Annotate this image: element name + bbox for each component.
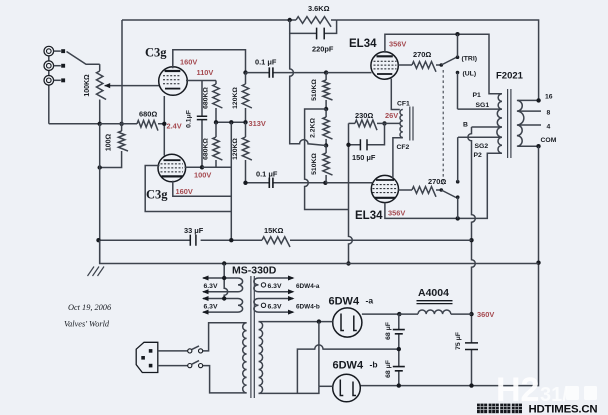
svg-text:(UL): (UL) [463,71,477,78]
pot wiper arrow [105,85,160,87]
capacitor 68uF a [393,330,405,334]
tube V3 EL34 upper [371,52,398,79]
wire cathode line [100,123,165,125]
svg-text:100Ω: 100Ω [106,133,113,151]
wire SG1 tap [458,108,501,110]
capacitor screen bypass 0.1uF [201,81,203,168]
svg-text:6.3V: 6.3V [204,304,218,311]
ground symbol [88,267,105,277]
svg-text:16: 16 [545,94,553,101]
PT 6.3V right w3 [259,278,294,292]
node bias top [324,107,328,111]
choke CF core [410,107,413,141]
svg-text:CF2: CF2 [397,144,410,151]
node coupling bottom [243,181,247,185]
wire 150uF branch [349,123,385,263]
svg-text:270Ω: 270Ω [413,50,431,59]
wire B+ vertical [468,127,475,386]
wire plate link vertical [318,322,320,387]
svg-text:2.4V: 2.4V [167,122,182,131]
mains plug [136,342,158,372]
wire Va cathode [362,313,399,315]
svg-text:100KΩ: 100KΩ [84,74,91,97]
svg-text:680KΩ: 680KΩ [203,87,210,109]
node TRI contact [456,55,460,59]
svg-text:26V: 26V [385,111,398,120]
selector contact 3 [61,78,65,82]
selector contact 2 [61,64,65,68]
resistor 120K lower [245,122,247,137]
wire UL bottom to SG2 [457,137,459,182]
node 68uF bottom [397,383,401,387]
OPT secondary winding [517,100,524,146]
capacitor 150uF [360,139,367,150]
node EL34 grid bottom [323,181,327,185]
svg-text:220pF: 220pF [312,45,334,54]
watermark logo [496,371,597,409]
resistor 2.2K [323,117,333,139]
choke CF winding [400,110,403,138]
node hw2 [222,296,226,300]
resistor 230ohm [349,122,356,124]
node rail-680K [214,120,218,124]
wire B tap [472,126,501,128]
tube V4 EL34 lower [371,175,398,202]
node cathode 2.4V [162,122,166,126]
node tap16 [536,98,540,102]
switch link dashed [442,70,444,185]
resistor 510K top [325,73,327,80]
wire V1 plate [173,50,246,73]
svg-text:SG1: SG1 [476,102,490,109]
node fb/cathode-R [119,122,123,126]
svg-text:0.1 μF: 0.1 μF [255,58,277,67]
capacitor 33uF [190,235,196,246]
svg-text:-b: -b [370,360,378,370]
wire jack link [49,56,100,124]
wire V3 plate [385,34,502,93]
wire V1 cathode [163,96,165,156]
wire grid bottom EL34 [325,182,372,184]
resistor 3.6K [296,17,331,27]
node switch pivot bottom [440,188,444,192]
selector contact 1 [61,49,65,53]
node heater gnd [222,261,226,265]
svg-text:4: 4 [547,124,551,131]
svg-text:33 μF: 33 μF [184,226,204,235]
node EL34 grid top [324,70,328,74]
wire rail to bus [230,122,232,240]
tube V1 C3g upper [159,67,188,96]
node screen lower [200,165,204,169]
svg-text:313V: 313V [249,119,266,128]
wire doubler mid [297,345,398,393]
capacitor 75uF [465,343,478,350]
svg-text:270Ω: 270Ω [428,177,446,186]
PT core [251,276,254,398]
wire CF center tap [385,122,401,124]
node UL contact [456,71,460,75]
svg-text:356V: 356V [388,209,405,218]
selector switch lever [67,52,100,65]
resistor 270ohm bottom [398,189,412,191]
svg-text:680KΩ: 680KΩ [203,138,210,160]
wire 68uF chain [398,314,400,386]
svg-text:150 μF: 150 μF [352,153,376,162]
svg-text:6.3V: 6.3V [204,283,218,290]
svg-text:15KΩ: 15KΩ [264,226,284,235]
resistor 100ohm [121,124,123,131]
svg-text:160V: 160V [176,187,193,196]
wire bus decouple [99,239,472,241]
resistor 680K lower [215,122,217,137]
wire TRI to plate [457,34,459,57]
switch lever bottom [441,190,456,198]
wire bias return [305,109,349,210]
svg-text:Oct 19, 2006: Oct 19, 2006 [68,303,112,312]
OPT core [508,89,511,158]
resistor 680K upper [215,81,217,85]
resistor 15K [262,237,290,247]
resistor 270ohm top [398,64,412,66]
svg-text:(TRI): (TRI) [462,56,477,63]
wire COM down [360,146,539,385]
svg-text:75 μF: 75 μF [455,332,462,350]
capacitor 0.1uF top [269,67,273,77]
capacitor 68uF b [393,367,405,371]
PT primary winding [243,323,247,393]
wire Vb plate lead [319,385,333,387]
wire SG2 tap [458,136,500,138]
svg-text:120KΩ: 120KΩ [232,138,239,160]
svg-text:MS-330D: MS-330D [232,265,277,277]
svg-text:120KΩ: 120KΩ [232,87,239,109]
svg-text:A4004: A4004 [418,287,449,299]
node tapCOM [536,144,540,148]
wire V4 plate [385,153,502,218]
svg-text:-a: -a [366,296,374,306]
switch S1b [188,364,192,368]
svg-text:COM: COM [541,137,557,144]
input jack J3 [44,76,54,86]
wire feedback bus left [122,20,296,124]
svg-text:C3g: C3g [145,46,167,60]
tube V5 6DW4-a [333,308,362,337]
PT HV winding [259,322,263,394]
wire V2 screen [185,166,232,168]
svg-text:100V: 100V [194,171,211,180]
node rail-mid [229,120,233,124]
svg-text:6DW4: 6DW4 [329,296,360,308]
capacitor 0.1uF bottom [269,178,273,188]
node cathode return gnd [346,261,350,265]
node doubler mid [397,347,401,351]
wire V2 grid [145,166,231,212]
svg-text:510KΩ: 510KΩ [311,79,318,101]
node Va plate link [317,319,321,323]
svg-text:0.1 μF: 0.1 μF [256,170,278,179]
wire feedback injection [290,33,326,145]
node B+ bus [469,238,473,242]
wire V2 plate [173,181,232,197]
svg-text:680Ω: 680Ω [139,110,157,119]
wire V3 cathode [391,79,400,110]
svg-text:6DW4-b: 6DW4-b [296,304,320,311]
tube V2 C3g lower [158,154,186,182]
svg-text:EL34: EL34 [355,210,383,222]
node 360V [469,312,473,316]
node TRI contact bottom [456,195,460,199]
svg-text:6DW4: 6DW4 [333,360,364,372]
node rail-120K [243,120,247,124]
svg-text:356V: 356V [389,40,406,49]
svg-text:6.3V: 6.3V [268,304,282,311]
wire fb bus right [337,20,539,100]
svg-text:Valves' World: Valves' World [64,320,110,329]
wire ground bus [100,240,539,263]
tube V6 6DW4-b [333,374,361,402]
node plate coupling [243,70,247,74]
switch S1a [188,349,192,353]
wire rect to choke [399,313,418,315]
svg-text:F2021: F2021 [496,71,524,82]
svg-text:B: B [463,122,468,129]
wire mains bottom [203,366,247,393]
node fb RC left [288,18,292,22]
PT 6.3V left w2 [203,299,238,313]
resistor 510K bottom [325,146,327,154]
svg-text:68 μF: 68 μF [385,322,392,340]
node 100ohm return [98,165,102,169]
svg-text:510KΩ: 510KΩ [311,153,318,175]
svg-text:C3g: C3g [146,187,168,201]
watermark text [477,404,487,414]
wire 220pF branch [290,20,337,33]
wire mains top [203,323,247,351]
resistor 680ohm [137,120,158,130]
wire left ground drop [99,124,101,264]
svg-text:360V: 360V [477,310,494,319]
svg-text:3.6KΩ: 3.6KΩ [308,4,330,13]
node 150uF left [346,143,350,147]
svg-text:EL34: EL34 [349,38,377,50]
node bus mid [229,238,233,242]
svg-text:SG2: SG2 [475,143,489,150]
wire coupling bottom [246,182,326,184]
node bias bottom [324,143,328,147]
svg-text:2.2KΩ: 2.2KΩ [310,118,317,138]
PT 6.3V left w1 [203,278,238,292]
capacitor 220pF [317,28,325,40]
svg-text:0.1μF: 0.1μF [186,110,193,128]
wire grid top EL34 [326,72,371,74]
OPT primary winding [497,94,502,153]
node bus left [96,238,100,242]
node plate-switch bottom [456,216,460,220]
wire UL to SG1 [457,73,459,110]
choke A4004 winding [418,310,451,314]
svg-text:6.3V: 6.3V [268,283,282,290]
svg-text:6DW4-a: 6DW4-a [296,283,320,290]
node UL contact bottom [456,180,460,184]
wire heater ground link [224,264,228,299]
svg-text:HDTIMES.CN: HDTIMES.CN [529,403,598,415]
node 26V tap [382,121,386,125]
wire 313V rail [216,121,246,123]
svg-text:P1: P1 [473,92,482,99]
node hw1 [222,276,226,280]
node B+ bottom [469,383,473,387]
svg-text:8: 8 [547,110,551,117]
wire plug bottom [158,365,188,367]
node rect out [397,312,401,316]
choke A4004 core [417,301,453,304]
svg-text:CF1: CF1 [397,101,410,108]
PT 6.3V right w4 [259,299,294,313]
wire coupling top [246,72,327,74]
node TRI top [455,32,459,36]
wire tap16 [518,99,539,101]
wire plug top [158,350,188,352]
node COM-groundbus [536,261,540,265]
input jack J2 [44,61,54,71]
svg-text:230Ω: 230Ω [355,111,373,120]
input jack J1 [44,46,54,56]
svg-text:P2: P2 [474,152,483,159]
potentiometer VR1 100K [99,64,101,71]
wire V4 cathode [393,138,403,178]
wire tapCOM [518,145,539,147]
node switch pivot top [440,63,444,67]
wire HV top to Va plate [259,321,333,323]
svg-text:110V: 110V [197,68,214,77]
svg-text:68 μF: 68 μF [385,360,392,378]
wire TRI bottom to plate [457,197,459,218]
switch lever top [441,58,456,66]
resistor 120K upper [245,73,247,84]
wire tap8 [518,110,541,112]
wire HV bottom [259,386,319,393]
node pot bottom [98,122,102,126]
svg-text:160V: 160V [180,58,197,67]
wire V1 screen [186,80,216,82]
wire tap4 [518,124,541,126]
